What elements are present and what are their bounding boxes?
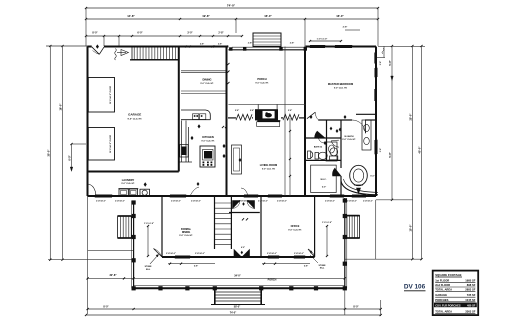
svg-text:9'-0" CLG. HT.: 9'-0" CLG. HT. <box>334 88 348 90</box>
svg-text:16'-0": 16'-0" <box>336 14 344 18</box>
svg-text:6'-8": 6'-8" <box>304 266 308 268</box>
svg-text:74'-0": 74'-0" <box>230 312 237 315</box>
svg-text:6'-8": 6'-8" <box>194 266 198 268</box>
svg-text:9'-0" CLG. HT.: 9'-0" CLG. HT. <box>262 169 276 171</box>
svg-text:STONE: STONE <box>145 266 153 268</box>
svg-text:W.I.C.: W.I.C. <box>321 179 327 181</box>
svg-text:16'-0": 16'-0" <box>59 103 63 111</box>
svg-text:9'-0" CLG. HT.: 9'-0" CLG. HT. <box>200 83 214 85</box>
svg-text:898 SF: 898 SF <box>467 283 476 287</box>
svg-text:34'-0": 34'-0" <box>234 275 241 278</box>
svg-text:9'-0" CLG. HT.: 9'-0" CLG. HT. <box>179 235 193 237</box>
svg-text:5'-0": 5'-0" <box>389 152 392 157</box>
svg-text:GARAGE: GARAGE <box>128 113 141 117</box>
svg-text:1045 SF: 1045 SF <box>465 298 476 302</box>
svg-text:1'-0"x1'-0": 1'-0"x1'-0" <box>144 223 154 225</box>
svg-text:BATH #2: BATH #2 <box>314 146 323 149</box>
svg-text:9'-0" CLG. HT.: 9'-0" CLG. HT. <box>342 139 356 141</box>
svg-text:2'-8"x5'-0": 2'-8"x5'-0" <box>239 201 249 203</box>
svg-text:2'-8"x5'-0": 2'-8"x5'-0" <box>277 201 287 203</box>
svg-text:19'-8": 19'-8" <box>202 14 210 18</box>
svg-text:2'-8"x5'-0": 2'-8"x5'-0" <box>191 201 201 203</box>
svg-text:6'-0": 6'-0" <box>137 32 142 35</box>
svg-text:1985 SF: 1985 SF <box>465 279 476 283</box>
svg-text:2883 SF: 2883 SF <box>465 287 476 291</box>
svg-text:14'-8": 14'-8" <box>127 14 135 18</box>
svg-text:2'-8"x5'-0": 2'-8"x5'-0" <box>267 253 277 255</box>
svg-text:KITCHEN: KITCHEN <box>202 135 214 139</box>
svg-text:5'-0": 5'-0" <box>370 176 374 178</box>
svg-text:LAUNDRY: LAUNDRY <box>122 178 135 182</box>
svg-text:2'-8": 2'-8" <box>218 44 222 46</box>
svg-text:2'-8"x5'-0": 2'-8"x5'-0" <box>325 201 335 203</box>
svg-text:2'-8": 2'-8" <box>250 110 254 112</box>
svg-text:735 SF: 735 SF <box>467 293 476 297</box>
svg-text:2'-8"x5'-0": 2'-8"x5'-0" <box>96 201 106 203</box>
svg-text:COV. FLR PORCHES: COV. FLR PORCHES <box>435 303 461 307</box>
svg-text:8'-0": 8'-0" <box>92 32 97 35</box>
svg-text:2'-8": 2'-8" <box>288 110 292 112</box>
svg-text:PORCHES: PORCHES <box>435 298 448 302</box>
svg-text:2'-8"x5'-0": 2'-8"x5'-0" <box>294 253 304 255</box>
svg-text:74'-0": 74'-0" <box>227 4 236 8</box>
svg-text:16'-0"x8'-0" OH DR: 16'-0"x8'-0" OH DR <box>110 134 112 153</box>
svg-text:OFFICE: OFFICE <box>291 225 300 228</box>
svg-text:2'-8": 2'-8" <box>200 44 204 46</box>
svg-text:2'-8": 2'-8" <box>248 43 252 45</box>
svg-text:2'-8"x5'-0": 2'-8"x5'-0" <box>171 201 181 203</box>
svg-text:3363 SF: 3363 SF <box>465 309 476 313</box>
svg-text:GARAGE: GARAGE <box>435 293 447 297</box>
svg-text:40'-0": 40'-0" <box>418 146 422 154</box>
svg-text:32'-8": 32'-8" <box>109 273 117 277</box>
svg-text:9'-0" CLG. HT.: 9'-0" CLG. HT. <box>255 83 269 85</box>
svg-text:2'-8"x5'-0": 2'-8"x5'-0" <box>347 201 357 203</box>
svg-text:6'-0": 6'-0" <box>69 155 72 160</box>
svg-text:2'-8": 2'-8" <box>380 148 382 152</box>
svg-text:TOTAL AREA: TOTAL AREA <box>435 287 452 291</box>
svg-text:9'-0" CLG. HT.: 9'-0" CLG. HT. <box>127 119 142 121</box>
svg-text:5'-0": 5'-0" <box>389 60 392 65</box>
svg-text:2'-8"x5'-0": 2'-8"x5'-0" <box>258 201 268 203</box>
svg-text:2'-8": 2'-8" <box>343 27 348 29</box>
svg-text:6'-0": 6'-0" <box>322 187 326 189</box>
svg-text:2'-8"x5'-0": 2'-8"x5'-0" <box>166 253 176 255</box>
svg-text:16'-0": 16'-0" <box>264 14 272 18</box>
svg-text:SILL: SILL <box>320 268 325 270</box>
svg-text:SQUARE FOOTAGE: SQUARE FOOTAGE <box>435 273 461 277</box>
svg-text:2'-8"x5'-0": 2'-8"x5'-0" <box>115 201 125 203</box>
svg-text:LIVING ROOM: LIVING ROOM <box>260 163 277 167</box>
svg-text:10'-0": 10'-0" <box>408 224 412 232</box>
svg-text:TOTAL AREA: TOTAL AREA <box>435 309 452 313</box>
svg-text:16'-0"x8'-0" OH DR: 16'-0"x8'-0" OH DR <box>110 85 112 104</box>
svg-text:30'-0": 30'-0" <box>46 149 50 157</box>
svg-text:9'-0" CLG. HT.: 9'-0" CLG. HT. <box>201 140 215 142</box>
svg-text:9'-0" CLG. HT.: 9'-0" CLG. HT. <box>121 183 135 185</box>
svg-text:PORCH: PORCH <box>257 77 266 81</box>
svg-text:1st FLOOR: 1st FLOOR <box>435 279 449 283</box>
svg-text:M. BATH: M. BATH <box>345 135 354 138</box>
svg-text:1'-0"x1'-0": 1'-0"x1'-0" <box>317 39 328 41</box>
svg-text:DINING: DINING <box>202 78 211 82</box>
svg-text:2'-8": 2'-8" <box>380 61 382 65</box>
svg-text:480 SF: 480 SF <box>467 303 476 307</box>
svg-text:MASTER BEDROOM: MASTER BEDROOM <box>328 82 353 86</box>
svg-text:2'-8": 2'-8" <box>290 43 294 45</box>
svg-text:8'-0": 8'-0" <box>353 305 358 308</box>
svg-text:PORCH: PORCH <box>268 279 277 282</box>
svg-text:3'-0": 3'-0" <box>187 32 192 35</box>
svg-text:2'-8"x5'-0": 2'-8"x5'-0" <box>363 201 373 203</box>
svg-text:2'-8"x5'-0": 2'-8"x5'-0" <box>195 253 205 255</box>
svg-text:9'-0" CLG. HT.: 9'-0" CLG. HT. <box>288 230 302 232</box>
svg-text:2nd FLOOR: 2nd FLOOR <box>435 283 450 287</box>
svg-text:8'-0": 8'-0" <box>103 305 108 308</box>
svg-text:DV 106: DV 106 <box>404 284 426 291</box>
svg-text:2'-8": 2'-8" <box>218 32 223 35</box>
svg-text:6'-0": 6'-0" <box>241 247 245 249</box>
svg-text:1'-0"x1'-0": 1'-0"x1'-0" <box>322 222 332 224</box>
svg-text:25'-0": 25'-0" <box>408 113 412 121</box>
svg-text:2'-8": 2'-8" <box>235 110 239 112</box>
svg-text:58'-0": 58'-0" <box>234 305 241 308</box>
svg-text:DINING: DINING <box>182 231 191 234</box>
